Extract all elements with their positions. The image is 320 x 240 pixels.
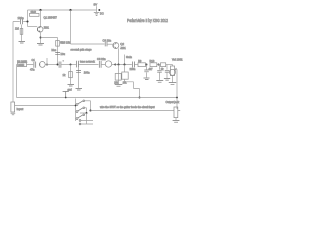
wire pot to ground bus [125,79,140,97]
svg-text:R5 15k: R5 15k [62,40,71,44]
capacitor C3 [103,38,113,46]
switch pole 1 [76,104,78,106]
battery BT1 9V [94,3,104,16]
resistor R6 [17,60,27,67]
wire gain pot feed [124,55,126,65]
node band junction E [117,63,119,65]
svg-text:R6 390R: R6 390R [17,60,27,63]
wire band segment 5 [115,64,132,66]
svg-text:C3 10n: C3 10n [103,38,112,42]
resistor R9 [138,63,146,67]
svg-text:9V: 9V [94,3,98,7]
node band junction C [70,64,72,66]
jack J1 input [11,102,24,115]
node source junction [40,37,42,39]
node band junction D [114,64,116,66]
ground R8 [115,85,123,87]
capacitor C5 electrolytic [59,60,64,68]
wire stage2 feed horizontal [71,43,105,45]
resistor R10 [149,59,157,71]
wire switch to output jack [91,110,175,112]
svg-text:Vol 100k: Vol 100k [172,57,183,61]
svg-text:wire the 3PDT so the guitar fe: wire the 3PDT so the guitar feeds the ci… [100,106,155,109]
svg-text:10u: 10u [61,52,66,56]
wire gate bias vertical [27,10,29,27]
wire band segment 7 [157,64,161,66]
trimmer VR1 [52,38,64,65]
wire input jack tip vertical [12,22,14,103]
wire middle band left vertical tie [16,65,18,98]
svg-text:J201: J201 [120,47,126,50]
wire gate horizontal [28,26,38,28]
ground input [19,42,26,44]
wire band segment 8 [166,64,173,66]
svg-text:Q1 2N5457: Q1 2N5457 [44,16,58,20]
wire band segment 3 [61,64,76,66]
wire band stub up [46,58,48,65]
transistor Q3 [39,62,45,68]
wire ground bus [17,97,178,99]
resistor R8 to ground [114,65,121,85]
transistor Q2 [113,42,127,50]
node input-gate junction [26,20,28,22]
wire band segment 1 [17,64,34,66]
svg-text:tone network: tone network [80,60,96,64]
capacitor C8 [97,57,106,68]
svg-text:J201: J201 [44,26,50,29]
svg-text:PedanValve II by KSG 2012: PedanValve II by KSG 2012 [127,18,168,23]
svg-text:100n: 100n [84,71,90,75]
capacitor C1 [13,16,28,25]
svg-text:bias: bias [52,49,57,52]
wire bus corner to jack [176,69,178,109]
node rail-stage2 junction [69,9,71,11]
svg-text:2M2: 2M2 [31,10,37,14]
svg-text:DC: DC [100,12,104,16]
svg-text:390R: 390R [18,64,24,67]
wire input jack tip horizontal [15,105,76,107]
node bus junction pot [139,97,141,99]
svg-text:47n: 47n [30,68,35,72]
switch pole 2 [76,111,78,113]
svg-text:Input: Input [17,107,24,111]
svg-text:4k7: 4k7 [149,68,154,71]
wire source bypass horizontal [41,37,58,39]
potentiometer VR2 [101,61,115,67]
ground C12 [156,81,163,83]
wire band segment 4 [79,64,99,66]
node band junction B [57,64,59,66]
resistor R7 to ground [63,65,73,85]
potentiometer VR3 [122,65,128,85]
wire drain vertical [40,10,42,27]
wire top supply rail [28,9,97,11]
wire stage2 feed vertical [70,10,72,44]
node band junction G [146,64,148,66]
wire band segment 2 [45,64,57,66]
capacitor C4 [30,59,36,72]
resistor R1 [15,25,23,42]
potentiometer VR4 volume [170,57,183,82]
ground symbol bus [63,89,73,99]
capacitor C12 to ground [157,65,162,81]
node band junction A [46,64,48,66]
capacitor C7 to ground [76,67,90,88]
svg-text:Output jack: Output jack [166,100,180,104]
capacitor C6 [77,61,79,68]
wire band segment 6 [134,64,138,66]
ground C13 [164,79,170,81]
svg-text:R10: R10 [150,59,155,63]
ground VR4 [169,83,176,85]
svg-text:Q2: Q2 [120,42,124,46]
capacitor C9 [130,62,136,72]
svg-text:C8 22n: C8 22n [97,57,106,61]
capacitor C13 to ground [165,65,170,79]
switch SW1 3PDT [75,99,93,125]
switch bottom contacts [81,121,94,125]
ground C11 [144,78,150,80]
ground R7 [68,85,75,87]
wire source vertical [40,33,42,43]
switch pole3 link [80,108,87,113]
ground C7 [76,89,83,91]
node rail-drain junction [39,9,41,11]
svg-text:100n: 100n [18,16,25,20]
svg-text:220n: 220n [130,67,136,71]
switch bus vertical right [90,101,92,111]
node band junction H [158,64,160,66]
capacitor C2 [55,52,65,56]
ground source [37,44,44,46]
jack J2 output [166,100,181,122]
resistor R2 [30,10,40,16]
transistor Q1 [37,16,57,32]
switch pole 3 [76,118,78,120]
node band junction F [123,63,125,65]
svg-text:Gain: Gain [126,55,132,59]
svg-text:second gain stage: second gain stage [71,48,93,52]
svg-text:gnd: gnd [68,89,73,92]
resistor R11 [161,63,166,67]
wire stage2 out vertical [118,48,120,64]
capacitor C11 to ground [144,65,149,78]
